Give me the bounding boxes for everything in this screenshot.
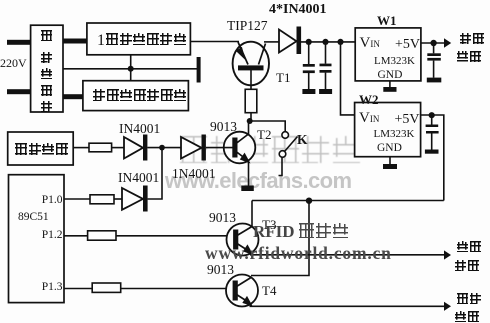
relay contact K: [279, 132, 297, 158]
W1 GND pin: [389, 81, 391, 87]
wire T3 emitter output: [250, 254, 444, 256]
wire W2 +5V output: [421, 115, 444, 201]
wire D3 to T2 base: [206, 147, 233, 149]
wire T1 base to R1: [250, 70, 252, 89]
label 89C51: [18, 212, 49, 224]
transformer secondary stub upper: [63, 39, 87, 44]
watermark www.elecfans.com: [165, 170, 351, 192]
wire node B down to D4 output: [148, 148, 162, 199]
label sampling power: [457, 241, 482, 276]
node d1: [306, 39, 312, 45]
W2 pin Vin: [359, 111, 379, 126]
rectifier box 2 (aux): [83, 81, 188, 111]
220V input wire upper: [7, 40, 32, 45]
node B: [159, 145, 165, 151]
resistor R4: [88, 231, 116, 240]
label W1: [377, 14, 397, 27]
wire node A to relay K: [250, 121, 286, 132]
W2 pin GND: [377, 143, 402, 155]
W2 ground: [383, 164, 397, 169]
pin P1.3: [42, 282, 63, 294]
watermark RFID: [253, 223, 350, 240]
wire box1 bottom to box2 top: [130, 55, 132, 81]
label port power: [457, 293, 482, 323]
wire R5 to T4 base: [121, 288, 233, 290]
wire diode to W1 Vin: [301, 41, 355, 43]
transistor T2 9013: [224, 132, 256, 164]
transistor T4 9013: [226, 275, 258, 307]
diode D3 1N4001: [181, 137, 202, 159]
capacitor C3: [427, 43, 442, 82]
label K: [297, 133, 308, 147]
wire R1 to node A: [250, 113, 252, 121]
wire T2 emitter down: [248, 162, 250, 186]
89C51 box: [9, 175, 65, 303]
wire P1.3 to R5: [64, 288, 92, 290]
wire R2 to D2: [112, 147, 124, 149]
W2 part LM323K: [374, 129, 415, 140]
rectifier box 1: [87, 23, 190, 55]
transformer box: [31, 25, 63, 112]
W2 pin +5V: [395, 113, 420, 127]
wire node d3 down to W2 Vin: [341, 42, 355, 115]
label IN4001 upper: [119, 122, 160, 136]
wire T2 collector to node A: [248, 121, 250, 134]
node d2: [322, 39, 328, 45]
regulator W2 box: [355, 103, 421, 157]
transistor T1 TIP127: [233, 42, 269, 86]
wire W1 +5V output: [421, 42, 444, 44]
node bus junction: [306, 198, 312, 204]
resistor R2: [89, 143, 112, 152]
220V input wire lower: [7, 89, 32, 94]
T1 base resistor R1: [245, 89, 257, 112]
transistor T3 9013: [227, 224, 259, 256]
W2 GND pin: [389, 157, 391, 164]
label T3: [262, 218, 276, 231]
label IN4001 lower: [118, 171, 159, 185]
W1 part LM323K: [374, 56, 415, 67]
label rectifier filter 1: [97, 33, 187, 49]
pin P1.0: [42, 195, 63, 207]
W1 pin GND: [378, 70, 403, 82]
W1 ground: [383, 87, 396, 92]
label 9013 (T3): [209, 211, 236, 225]
watermark elecfans chinese: [180, 136, 363, 163]
label transformer (dual transformer, vertical): [41, 30, 53, 112]
node center tap junction: [128, 66, 134, 72]
diode D4 IN4001: [122, 188, 143, 210]
label 4*IN4001: [269, 3, 327, 17]
center tap wire: [63, 68, 198, 70]
wire bus to T4 collector: [251, 201, 309, 276]
W1 pin Vin: [360, 36, 380, 51]
label T2: [257, 128, 271, 141]
pin P1.2: [42, 230, 63, 242]
wire R3 to D4: [114, 198, 122, 200]
wire box1 to T1 emitter: [190, 41, 239, 43]
wire T4 emitter output: [250, 305, 445, 307]
diode 4*IN4001: [279, 30, 297, 53]
transformer secondary stub lower: [63, 94, 83, 99]
label start box: [15, 143, 69, 159]
label host power: [460, 33, 485, 67]
node d3: [337, 39, 343, 45]
capacitor C2: [319, 44, 332, 94]
wire K lower terminal: [279, 158, 283, 176]
common terminal bar: [197, 57, 201, 83]
wire T1 collector to diode: [264, 41, 279, 43]
label T1: [276, 71, 290, 84]
label 1N4001 mid: [172, 167, 216, 181]
node W1 out: [430, 40, 436, 46]
wire P1.0 to R3: [64, 198, 90, 200]
wire start box to R2: [73, 147, 89, 149]
diode D2 IN4001: [124, 137, 143, 159]
W1 pin +5V: [395, 38, 420, 52]
wire R4 to T3 base: [116, 235, 234, 237]
resistor R5: [92, 283, 121, 292]
label W2: [359, 93, 379, 106]
capacitor C4: [425, 115, 439, 154]
wire bus to T3 collector: [251, 201, 253, 227]
label T4: [262, 284, 276, 297]
watermark rfidworld: [205, 245, 392, 263]
arrow to host power: [444, 38, 451, 47]
wire D2 to node B: [147, 147, 181, 149]
arrow port power: [444, 302, 451, 311]
label TIP127: [227, 19, 268, 33]
node A: [247, 118, 253, 124]
label 9013 (T2): [210, 120, 237, 134]
label 220V: [0, 57, 27, 69]
label 9013 (T4): [207, 263, 234, 277]
label rectifier filter aux: [93, 89, 188, 105]
resistor R3: [90, 195, 114, 204]
wire P1.2 to R4: [64, 235, 88, 237]
arrow sampling power: [444, 250, 451, 259]
regulator W1 box: [355, 28, 421, 81]
5V bus wire: [252, 200, 444, 202]
node W2 out: [429, 112, 435, 118]
T2 emitter ground: [241, 186, 254, 192]
capacitor C1: [302, 44, 315, 94]
start box (switch start): [8, 132, 74, 165]
